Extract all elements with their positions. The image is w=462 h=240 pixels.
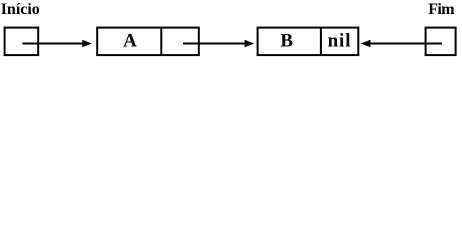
svg-text:Início: Início (1, 1, 40, 18)
svg-text:B: B (280, 30, 293, 51)
svg-text:A: A (123, 30, 137, 51)
svg-text:Fim: Fim (428, 1, 455, 18)
svg-text:nil: nil (328, 30, 352, 51)
